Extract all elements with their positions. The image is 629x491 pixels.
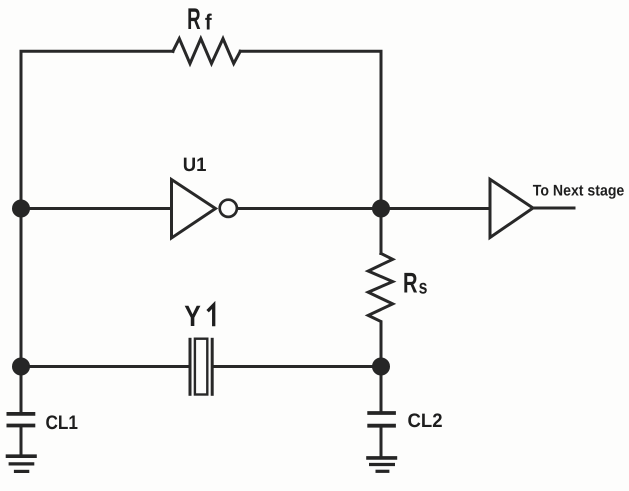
svg-text:CL1: CL1 [46, 412, 79, 434]
svg-text:R: R [403, 268, 418, 300]
svg-text:s: s [419, 276, 428, 298]
svg-text:U1: U1 [183, 154, 207, 176]
svg-text:Y: Y [184, 300, 201, 333]
svg-text:R: R [187, 3, 201, 36]
svg-text:CL2: CL2 [408, 410, 443, 432]
svg-text:To Next stage: To Next stage [533, 182, 625, 199]
svg-text:f: f [205, 10, 212, 35]
